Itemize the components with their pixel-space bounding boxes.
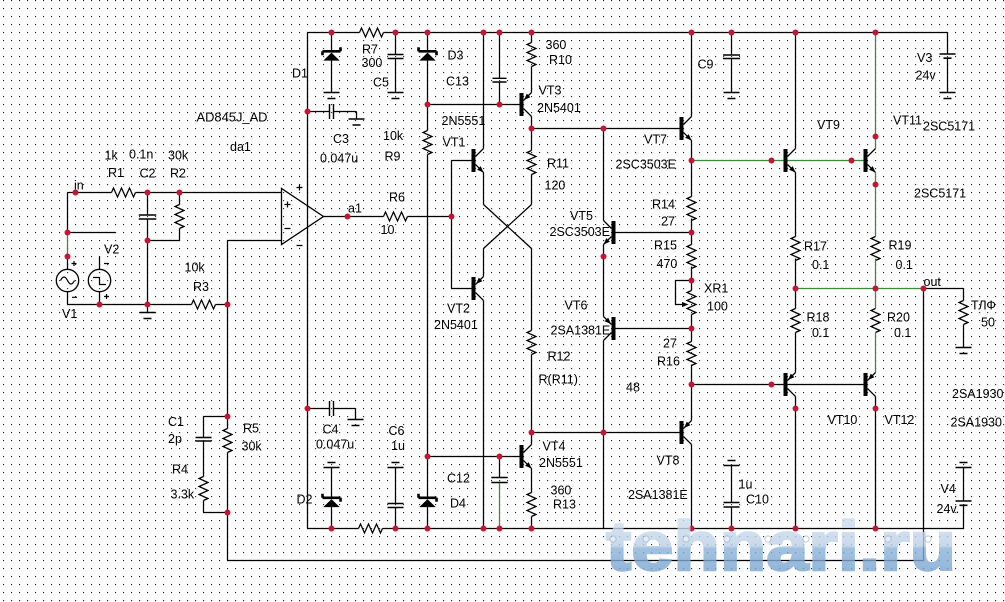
- wire V3 to ground: [947, 58, 949, 92]
- svg-text:C10: C10: [746, 493, 769, 507]
- transistor VT1 2N5551: [472, 149, 484, 173]
- svg-text:2SA1381E: 2SA1381E: [551, 324, 611, 338]
- svg-text:R7: R7: [362, 43, 378, 57]
- svg-text:0.047u: 0.047u: [320, 152, 358, 166]
- watermark tehnari.ru: [606, 507, 956, 585]
- wire R15 bottom lead: [691, 267, 693, 281]
- wire C5 top lead: [395, 33, 397, 55]
- junction at 795.5,32.5: [793, 30, 799, 36]
- svg-text:R17: R17: [804, 240, 827, 254]
- junction at 75.5,192.5: [73, 190, 79, 196]
- wire C9 top lead: [731, 33, 733, 55]
- resistor R15 470: [687, 245, 696, 269]
- wire C13 bottom lead: [499, 82, 501, 105]
- wire C13 top lead: [499, 33, 501, 79]
- wire R10 top lead: [531, 33, 533, 43]
- svg-text:D2: D2: [297, 493, 313, 507]
- wire C10 top lead: [731, 466, 733, 503]
- svg-text:R1: R1: [108, 166, 124, 180]
- resistor R17 0.1: [791, 237, 800, 261]
- wire C5 bottom lead: [395, 59, 397, 93]
- svg-text:VT8: VT8: [657, 454, 680, 468]
- ground D1: [324, 93, 340, 99]
- svg-text:R16: R16: [657, 355, 680, 369]
- transistor VT8 2SA1381E: [680, 421, 692, 445]
- source V1 sine: [56, 261, 78, 297]
- wire C6 to rail: [395, 508, 397, 529]
- wire VT4 collector to VT8 base: [532, 432, 680, 434]
- junction at 147.5,240.5: [145, 238, 151, 244]
- svg-text:VT9: VT9: [817, 118, 840, 132]
- svg-text:27: 27: [661, 215, 675, 229]
- svg-text:C2: C2: [140, 167, 156, 181]
- wire VT3 base: [428, 104, 520, 106]
- transistor VT10 2SA1930: [784, 373, 796, 397]
- wire in down: [67, 193, 69, 233]
- resistor R8 300: [359, 524, 383, 533]
- wire V4 to rail: [963, 505, 965, 528]
- wire feedback column upper: [227, 241, 229, 305]
- junction at 603.5,432.5: [601, 430, 607, 436]
- capacitor C13: [493, 78, 507, 82]
- resistor R5 30k: [223, 429, 232, 453]
- wire VT10/VT12 base bus: [692, 384, 864, 386]
- wire R11 top lead: [531, 129, 533, 151]
- resistor R9 10k: [423, 131, 432, 155]
- svg-text:C3: C3: [333, 132, 349, 146]
- junction at 771.5,384.5: [769, 382, 775, 388]
- potentiometer XR1 100: [687, 291, 696, 315]
- svg-text:VT7: VT7: [644, 133, 667, 147]
- svg-text:a1: a1: [348, 202, 362, 216]
- svg-text:V3: V3: [917, 51, 932, 65]
- svg-text:0.1: 0.1: [812, 326, 829, 340]
- wire R9 top lead: [427, 105, 429, 131]
- wire D3 to R9 node: [427, 61, 429, 105]
- wire VT3 collector lead: [531, 117, 533, 129]
- junction at 691.5,32.5: [689, 30, 695, 36]
- junction at 731.5,528.5: [729, 526, 735, 532]
- svg-text:R19: R19: [889, 239, 912, 253]
- svg-text:50: 50: [981, 316, 995, 330]
- svg-text:2N5551: 2N5551: [539, 456, 583, 470]
- svg-text:0.1: 0.1: [812, 258, 829, 272]
- resistor R11 120: [527, 151, 536, 175]
- transistor VT7 2SC3503E: [680, 117, 692, 141]
- junction at 851.5,160.5: [849, 158, 855, 164]
- junction at 483.5,528.5: [481, 526, 487, 532]
- wire bottom negative rail: [308, 528, 964, 530]
- wire R11 bottom lead: [531, 175, 533, 205]
- wire R2 bottom lead: [179, 229, 181, 241]
- junction at 307.5,408.5: [305, 406, 311, 412]
- wire stub right: [68, 232, 116, 234]
- svg-text:R6: R6: [389, 191, 405, 205]
- wire out to TLF: [924, 289, 964, 301]
- wire R13 to rail: [531, 517, 533, 529]
- junction at 499.5,456.5: [497, 454, 503, 460]
- junction at 67.5,232.5: [65, 230, 71, 236]
- ground V3: [940, 93, 956, 99]
- transistor VT11 2SC5171: [864, 149, 876, 173]
- svg-text:27: 27: [663, 337, 677, 351]
- svg-text:360: 360: [551, 484, 572, 498]
- junction at 179.5,192.5: [177, 190, 183, 196]
- wire VT1 collector column: [483, 33, 485, 149]
- resistor R19 0.1: [871, 237, 880, 261]
- resistor R16 27: [687, 342, 696, 366]
- wire C4 right lead: [334, 409, 356, 420]
- svg-text:R9: R9: [385, 150, 401, 164]
- junction at 795.5,288.5: [793, 286, 799, 292]
- ground C4: [348, 420, 364, 426]
- svg-text:XR1: XR1: [704, 282, 728, 296]
- wire R17 to mid node: [795, 259, 797, 289]
- capacitor C4 0.047u: [330, 401, 334, 416]
- wire VT6 collector down: [603, 341, 605, 433]
- svg-text:10: 10: [381, 223, 395, 237]
- junction at 331.5,528.5: [329, 526, 335, 532]
- wire gnd to D2: [331, 468, 333, 497]
- resistor R2 30k: [175, 205, 184, 229]
- wire VT4 base: [428, 456, 520, 458]
- svg-text:V4: V4: [941, 482, 956, 496]
- wire XR1 bottom lead: [691, 315, 693, 329]
- junction at 227.5,512.5: [225, 510, 231, 516]
- svg-text:0.1n: 0.1n: [129, 148, 153, 162]
- transistor VT9 2SC5171: [784, 149, 796, 173]
- wire R1 to op-amp + input: [136, 192, 282, 194]
- wire VT8 collector to rail: [691, 445, 693, 529]
- wire output column: [923, 289, 925, 561]
- wire green V1 top: [67, 233, 69, 257]
- wire V1 top lead: [67, 257, 69, 270]
- wire diagonal B: [484, 205, 532, 249]
- junction at 227.5,304.5: [225, 302, 231, 308]
- junction at 603.5,128.5: [601, 126, 607, 132]
- wire XR1 top lead: [691, 281, 693, 291]
- wire C3 left lead: [308, 111, 330, 113]
- wire green R19 to out node: [875, 259, 877, 289]
- wire VT5 collector column: [603, 129, 605, 221]
- wire R14 bottom lead: [691, 219, 693, 233]
- svg-text:VT5: VT5: [570, 209, 593, 223]
- wire R2 top lead: [179, 193, 181, 205]
- transistor VT2 2N5401: [472, 277, 484, 301]
- wire green R20 to VT12 emitter: [875, 333, 877, 373]
- svg-text:1u: 1u: [739, 478, 753, 492]
- svg-text:C1: C1: [168, 415, 184, 429]
- wire green output bus: [796, 288, 924, 290]
- wire C2 bottom lead: [147, 220, 149, 241]
- wire V1 bottom lead: [67, 292, 69, 305]
- wire C6 top lead: [395, 468, 397, 504]
- wire feedback column lower: [227, 513, 229, 561]
- ground C5: [388, 93, 404, 99]
- wire green R20 top lead: [875, 289, 877, 309]
- svg-text:R20: R20: [887, 311, 910, 325]
- svg-text:1u: 1u: [391, 439, 405, 453]
- junction at 427.5,456.5: [425, 454, 431, 460]
- wire C2 node to ground node: [147, 241, 149, 305]
- junction at 691.5,384.5: [689, 382, 695, 388]
- junction at 499.5,32.5: [497, 30, 503, 36]
- resistor R7 300: [360, 28, 384, 37]
- svg-text:D1: D1: [292, 67, 308, 81]
- wire VT6 base to XR1 node: [616, 328, 692, 330]
- junction at 875.5,288.5: [873, 286, 879, 292]
- junction at 691.5,328.5: [689, 326, 695, 332]
- wire VT7 emitter lead: [691, 141, 693, 161]
- wire C12 top lead: [499, 457, 501, 478]
- wire VT1 emitter down: [483, 173, 485, 205]
- ground V4 inverted: [956, 463, 972, 468]
- junction at 499.5,528.5: [497, 526, 503, 532]
- capacitor C6 1u: [388, 504, 404, 508]
- wire VT2 collector to rail: [483, 301, 485, 529]
- svg-text:2N5551: 2N5551: [442, 114, 486, 128]
- wire D2 to rail: [331, 507, 333, 528]
- svg-text:2SC3503E: 2SC3503E: [550, 225, 610, 239]
- wire D1 bottom lead: [331, 61, 333, 93]
- capacitor C12: [491, 478, 508, 483]
- svg-text:10k: 10k: [383, 129, 404, 143]
- wire R5 top lead: [227, 417, 229, 429]
- transistor VT6 2SA1381E: [604, 317, 616, 341]
- wire bottom of sources: [68, 304, 192, 306]
- svg-text:2p: 2p: [168, 432, 182, 446]
- capacitor C3 0.047u: [330, 104, 334, 119]
- junction at 427.5,528.5: [425, 526, 431, 532]
- wire VT8 emitter lead: [691, 385, 693, 421]
- svg-text:360: 360: [546, 38, 567, 52]
- diode D2 zener: [323, 494, 341, 507]
- wire to C1 branch top: [204, 416, 228, 418]
- wire R14 top lead: [691, 161, 693, 197]
- diode D3 zener: [419, 47, 437, 60]
- svg-text:30k: 30k: [242, 440, 263, 454]
- svg-text:D4: D4: [450, 497, 466, 511]
- wire R18 to VT10 emitter: [795, 333, 797, 373]
- wire feedback bottom run: [228, 560, 924, 562]
- wire to VT1 base: [452, 160, 472, 162]
- svg-text:C4: C4: [323, 423, 339, 437]
- junction at 795.5,408.5: [793, 406, 799, 412]
- svg-text:D3: D3: [448, 49, 464, 63]
- resistor R18 0.1: [791, 309, 800, 333]
- junction at 691.5,280.5: [689, 278, 695, 284]
- ground C6 inverted: [388, 463, 404, 468]
- junction at 731.5,32.5: [729, 30, 735, 36]
- diode D4 zener: [419, 494, 437, 507]
- wire green C12 to rail: [499, 483, 501, 529]
- junction at 875.5,32.5: [873, 30, 879, 36]
- ground C10 inverted: [724, 461, 740, 466]
- ground C3: [349, 119, 365, 125]
- wire to R12: [531, 249, 533, 331]
- wire green VT11 collector to rail: [875, 33, 877, 149]
- svg-text:R3: R3: [193, 280, 209, 294]
- svg-text:C12: C12: [447, 472, 470, 486]
- junction at 531.5,128.5: [529, 126, 535, 132]
- svg-text:VT6: VT6: [565, 299, 588, 313]
- resistor R4 3.3k: [199, 477, 208, 501]
- wire op-amp output: [324, 216, 384, 218]
- svg-text:3.3k: 3.3k: [171, 488, 195, 502]
- svg-text:da1: da1: [230, 140, 251, 154]
- wire VT5 base to R14/R15 node: [616, 232, 692, 234]
- wire C1 to R4: [203, 442, 205, 477]
- svg-text:V2: V2: [104, 243, 119, 257]
- svg-text:120: 120: [545, 179, 566, 193]
- wire left supply column: [307, 33, 309, 529]
- svg-text:48: 48: [626, 381, 640, 395]
- capacitor C10 1u: [724, 503, 740, 508]
- wire gnd to V4: [963, 468, 965, 501]
- svg-text:0.1: 0.1: [894, 326, 911, 340]
- svg-text:2SA1930: 2SA1930: [952, 387, 1003, 401]
- junction at 427.5,104.5: [425, 102, 431, 108]
- wire diagonal A: [484, 205, 532, 249]
- svg-text:VT10: VT10: [828, 413, 858, 427]
- transistor VT5 2SC3503E: [604, 221, 616, 245]
- svg-text:R12: R12: [548, 350, 571, 364]
- svg-text:out: out: [924, 275, 942, 289]
- junction at 427.5,32.5: [425, 30, 431, 36]
- ground C9: [724, 93, 740, 99]
- svg-text:30k: 30k: [168, 149, 189, 163]
- wire R16 top lead: [691, 329, 693, 342]
- svg-text:VT3: VT3: [539, 84, 562, 98]
- wire C9 bottom lead: [731, 59, 733, 93]
- resistor R1 1k: [112, 188, 136, 197]
- resistor R13 360: [527, 493, 536, 517]
- wire R5 bottom lead: [227, 453, 229, 513]
- junction at 395.5,528.5: [393, 526, 399, 532]
- svg-text:R14: R14: [652, 198, 675, 212]
- diode D1 zener: [323, 47, 341, 60]
- svg-text:2N5401: 2N5401: [434, 318, 478, 332]
- wire top positive rail: [308, 32, 948, 34]
- svg-text:2N5401: 2N5401: [537, 101, 581, 115]
- wire D4 to rail: [427, 507, 429, 528]
- resistor R6 10: [384, 212, 408, 221]
- junction at 875.5,136.5: [873, 134, 879, 140]
- junction at 531.5,432.5: [529, 430, 535, 436]
- svg-text:2SA1381E: 2SA1381E: [628, 488, 688, 502]
- wire VT10 collector to rail: [795, 397, 797, 529]
- wire VT4 collector lead: [531, 433, 533, 445]
- op-amp da1 AD845J_AD: [282, 185, 324, 246]
- junction at 227.5,416.5: [225, 414, 231, 420]
- wire V2 top lead: [99, 257, 101, 270]
- wire R9 long column: [427, 155, 429, 457]
- wire C10 to rail: [731, 508, 733, 529]
- junction at 795.5,528.5: [793, 526, 799, 532]
- wire V2 bottom lead: [99, 292, 101, 305]
- svg-text:R15: R15: [654, 239, 677, 253]
- resistor R14 27: [687, 197, 696, 221]
- svg-text:2SC5171: 2SC5171: [914, 187, 966, 201]
- svg-text:C6: C6: [389, 424, 405, 438]
- svg-text:VT4: VT4: [543, 440, 566, 454]
- wire VT3 collector to VT5 node: [532, 128, 604, 130]
- wire C3 right lead: [334, 112, 357, 120]
- svg-text:AD845J_AD: AD845J_AD: [197, 111, 268, 125]
- wire VT4 emitter lead: [531, 469, 533, 493]
- wire VT5 emitter to VT6 emitter: [603, 257, 605, 317]
- wire R18 top lead: [795, 289, 797, 309]
- junction at 875.5,408.5: [873, 406, 879, 412]
- wire VT2 emitter lead: [483, 249, 485, 277]
- svg-text:VT11: VT11: [893, 114, 922, 128]
- wire C2 to R2 bottom: [148, 240, 180, 242]
- capacitor C5: [388, 55, 404, 59]
- svg-text:R5: R5: [243, 422, 259, 436]
- junction at 147.5,304.5: [145, 302, 151, 308]
- wire to op-amp - input: [228, 240, 282, 242]
- junction at 771.5,160.5: [769, 158, 775, 164]
- transistor VT3 2N5401: [520, 93, 532, 117]
- potentiometer XR1 wiper: [676, 281, 692, 308]
- wire VT5 emitter lead: [603, 245, 605, 257]
- junction at 531.5,32.5: [529, 30, 535, 36]
- svg-text:in: in: [74, 179, 84, 193]
- wire R10 to VT3 emitter: [531, 67, 533, 93]
- transistor VT12 2SA1930: [864, 373, 876, 397]
- wire node to D4: [427, 457, 429, 497]
- ground TLF: [956, 348, 972, 354]
- svg-text:R18: R18: [807, 311, 830, 325]
- wire VT7 base: [604, 128, 680, 130]
- junction at 691.5,528.5: [689, 526, 695, 532]
- svg-text:R(R11): R(R11): [539, 373, 578, 387]
- svg-text:C13: C13: [446, 75, 469, 89]
- junction at 67.5,256.5: [65, 254, 71, 260]
- capacitor C1 2p: [196, 438, 212, 442]
- source V2 pulse: [88, 264, 110, 300]
- junction at 331.5,32.5: [329, 30, 335, 36]
- wire green VT9/VT11 base bus: [692, 160, 864, 162]
- transistor VT4 2N5551: [520, 445, 532, 469]
- junction at 395.5,32.5: [393, 30, 399, 36]
- wire R12 to VT4 collector node: [531, 355, 533, 433]
- svg-text:2SC5171: 2SC5171: [923, 120, 975, 134]
- battery V3 24v: [940, 54, 956, 58]
- resistor R10 360: [527, 43, 536, 67]
- junction at 603.5,256.5: [601, 254, 607, 260]
- wire R3 to feedback node: [216, 304, 228, 306]
- wire base riser VT1/VT2: [451, 161, 453, 289]
- junction at 875.5,528.5: [873, 526, 879, 532]
- wire green VT11 emitter to R19: [875, 173, 877, 237]
- wire VT6 collector to rail: [603, 433, 605, 529]
- wire VT9 emitter to R17: [795, 173, 797, 237]
- wire R4 bottom lead: [203, 501, 205, 513]
- wire rail to V3: [947, 33, 949, 54]
- svg-text:0.047u: 0.047u: [316, 438, 354, 452]
- wire C4 left lead: [308, 408, 330, 410]
- svg-text:VT2: VT2: [447, 302, 470, 316]
- wire R16 bottom lead: [691, 365, 693, 385]
- wire TLF bottom lead: [963, 325, 965, 348]
- svg-text:R11: R11: [547, 157, 569, 171]
- junction at 347.5,216.5: [345, 214, 351, 220]
- svg-text:tehnari.ru: tehnari.ru: [606, 507, 956, 585]
- junction at 451.5,216.5: [449, 214, 455, 220]
- wire to VT2 base: [452, 288, 472, 290]
- junction at 147.5,192.5: [145, 190, 151, 196]
